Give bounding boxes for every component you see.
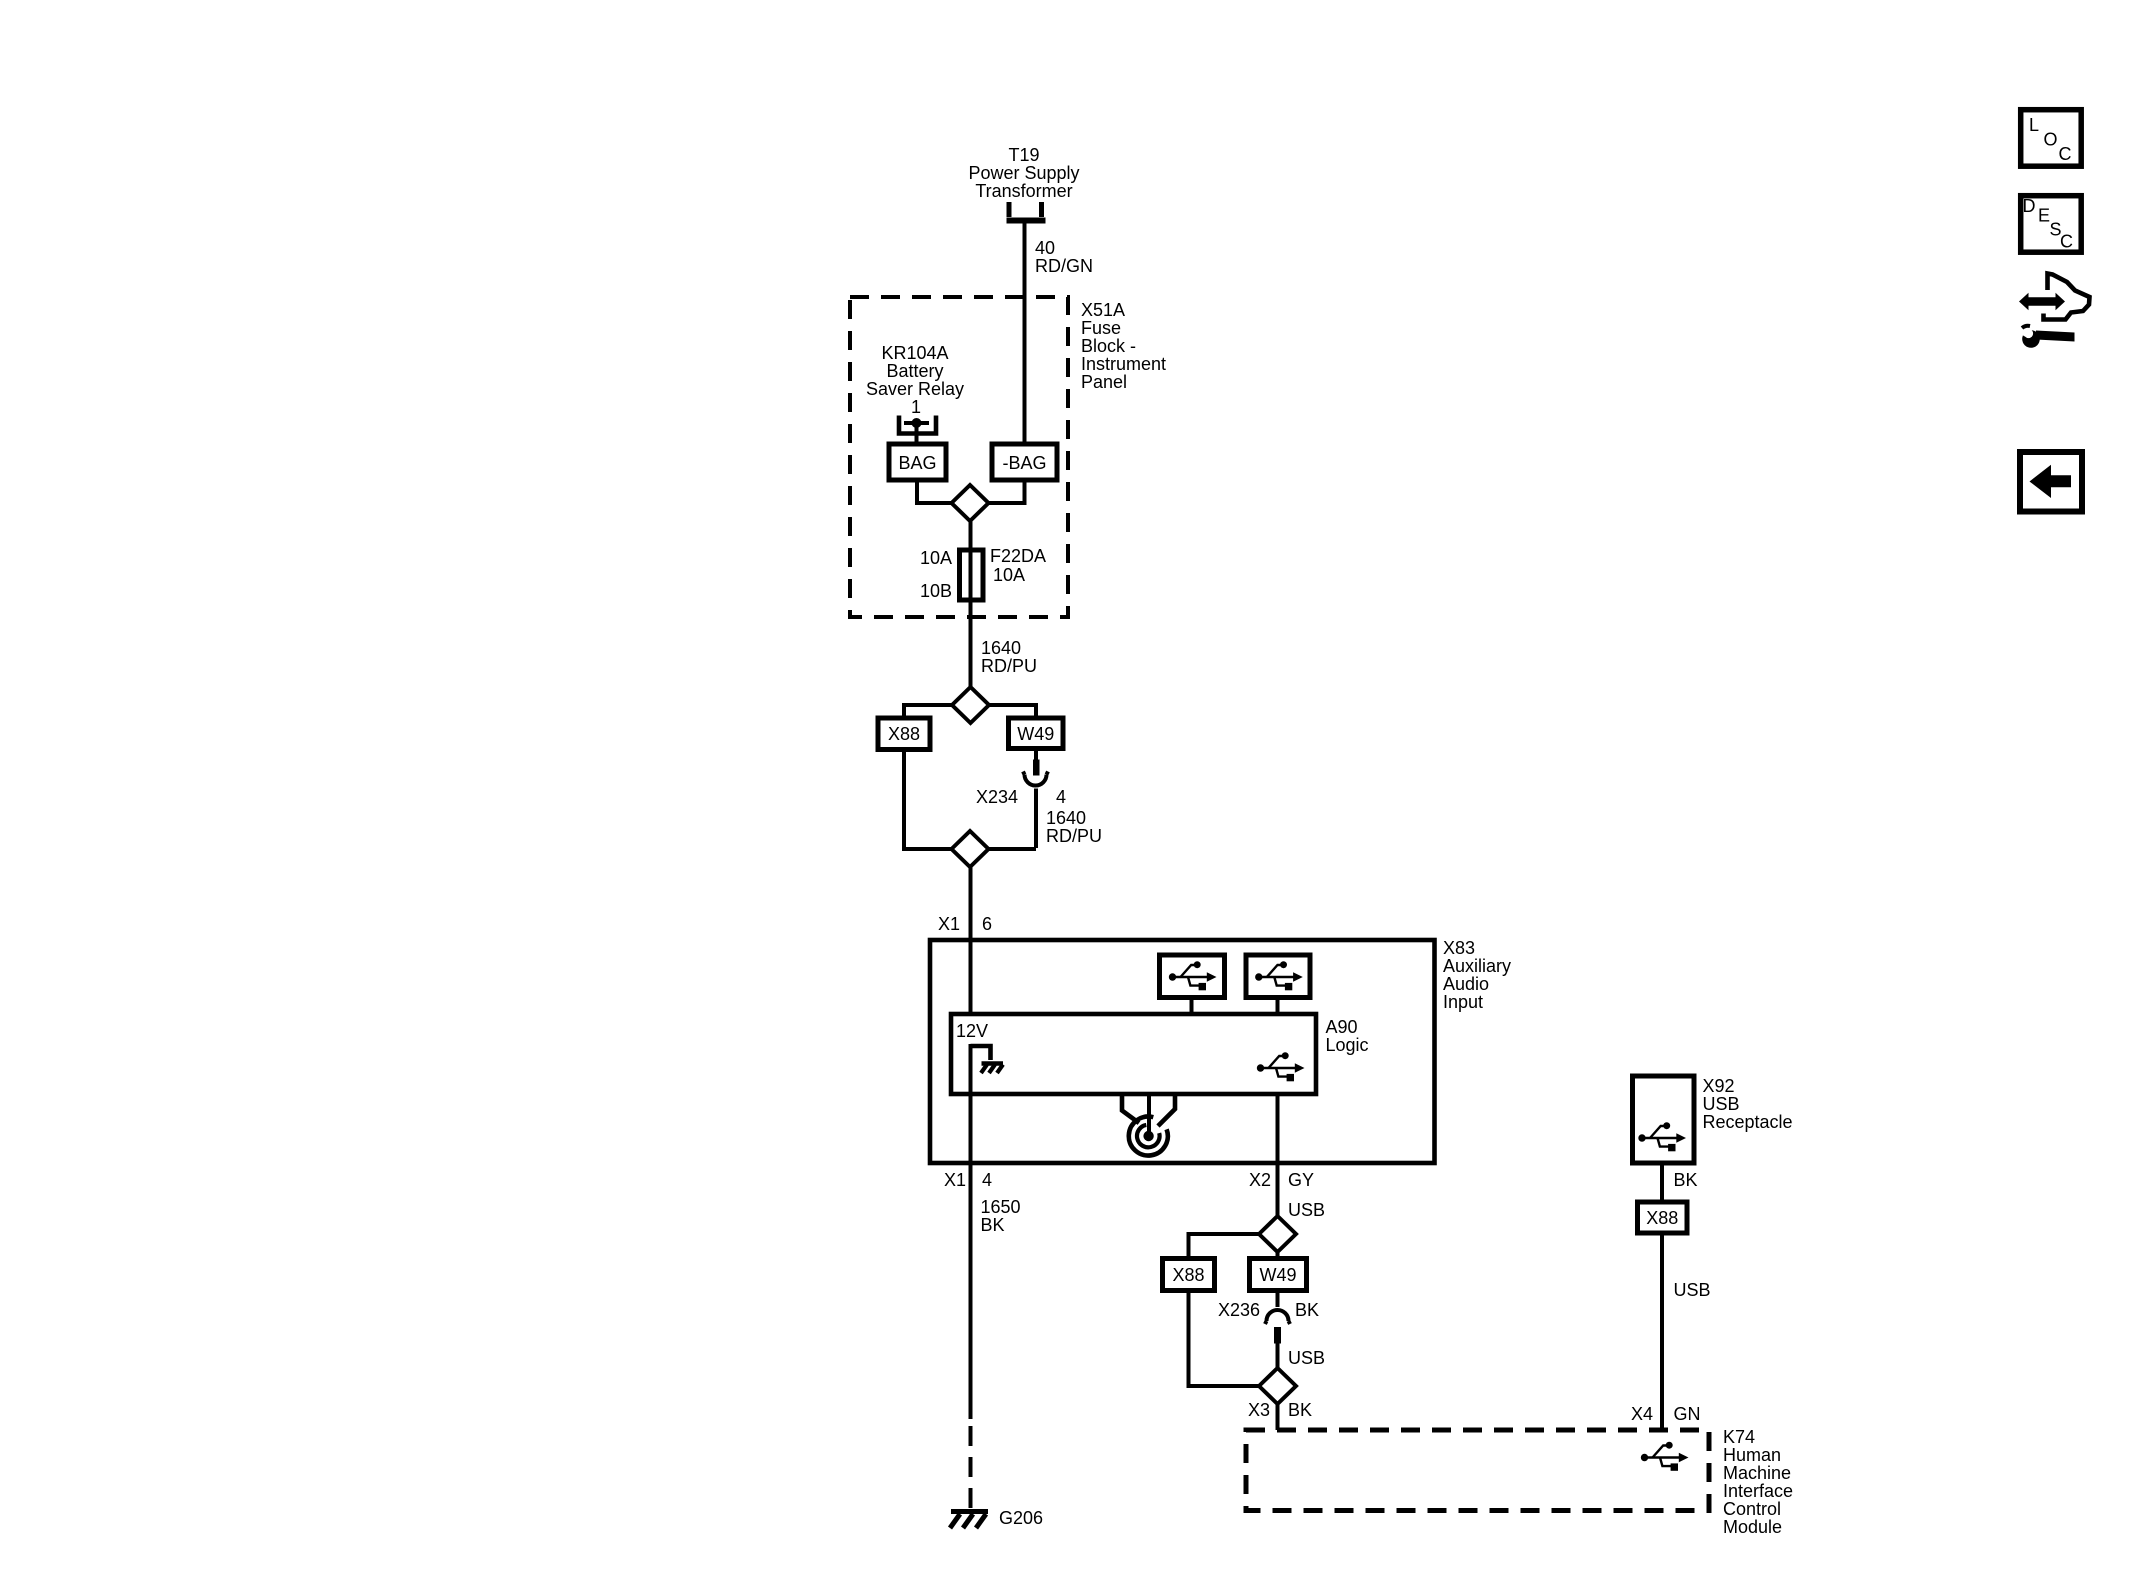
svg-text:X88: X88 (888, 724, 920, 744)
svg-text:Module: Module (1723, 1517, 1782, 1537)
connector label X3 BK (1248, 1400, 1312, 1420)
svg-text:Battery: Battery (886, 361, 943, 381)
dashed ground lead (969, 1426, 973, 1509)
svg-text:RD/PU: RD/PU (1046, 826, 1102, 846)
svg-text:BK: BK (1674, 1170, 1698, 1190)
svg-text:Instrument: Instrument (1081, 354, 1166, 374)
svg-text:USB: USB (1703, 1094, 1740, 1114)
inline connector X234 socket (1023, 772, 1048, 849)
svg-text:F22DA: F22DA (990, 546, 1046, 566)
inline connector X236 pin (1274, 1327, 1281, 1368)
svg-text:X88: X88 (1172, 1265, 1204, 1285)
connector label X1 4 (944, 1170, 992, 1190)
USB symbol port 1 (1169, 961, 1217, 990)
svg-text:1640: 1640 (981, 638, 1021, 658)
wire label 1640 RD/PU second (1046, 808, 1102, 846)
svg-text:USB: USB (1674, 1280, 1711, 1300)
wire X92 to X88 (1660, 1163, 1664, 1203)
wire label 1650 BK (981, 1197, 1021, 1235)
X51A label (1081, 300, 1166, 392)
terminal -BAG box (992, 444, 1057, 480)
svg-text:G206: G206 (999, 1508, 1043, 1528)
transformer T19 label (968, 145, 1079, 201)
wire -BAG to splice (988, 480, 1025, 503)
svg-text:KR104A: KR104A (881, 343, 948, 363)
relay KR104A contact terminal 1 (899, 416, 936, 447)
vehicle/wrench navigation icon (2016, 274, 2090, 348)
svg-text:X51A: X51A (1081, 300, 1125, 320)
USB symbol in K74 (1641, 1442, 1689, 1471)
relay KR104A label (866, 343, 964, 399)
svg-text:Logic: Logic (1326, 1035, 1369, 1055)
back arrow box (2020, 452, 2082, 512)
X92 USB Receptacle box (1633, 1076, 1695, 1163)
svg-text:4: 4 (982, 1170, 992, 1190)
svg-text:X234: X234 (976, 787, 1018, 807)
splice diamond in fuse block (952, 485, 989, 521)
connector X88 box third (1638, 1202, 1688, 1233)
inline connector X236 socket (1265, 1291, 1290, 1325)
svg-text:X2: X2 (1249, 1170, 1271, 1190)
svg-text:X4: X4 (1631, 1404, 1653, 1424)
A90 label (1326, 1017, 1369, 1055)
svg-text:BK: BK (1288, 1400, 1312, 1420)
svg-text:C: C (2060, 232, 2073, 252)
svg-text:Transformer: Transformer (975, 181, 1072, 201)
splice diamond above X88/W49 second (1259, 1216, 1296, 1252)
connector W49 box (1009, 718, 1064, 749)
svg-text:Fuse: Fuse (1081, 318, 1121, 338)
svg-text:T19: T19 (1008, 145, 1039, 165)
A90 Logic box (951, 1014, 1316, 1094)
wire splice to X88 (904, 705, 952, 719)
wire X88 to lower splice (904, 750, 952, 850)
svg-text:Block -: Block - (1081, 336, 1136, 356)
svg-text:40: 40 (1035, 238, 1055, 258)
svg-text:USB: USB (1288, 1200, 1325, 1220)
svg-text:O: O (2044, 130, 2058, 150)
wire 1650 BK to ground (969, 1163, 973, 1419)
svg-text:Panel: Panel (1081, 372, 1127, 392)
wire USB port 1 to A90 (1190, 998, 1194, 1017)
wire A90 to X2 (1276, 1094, 1280, 1163)
svg-text:RD/GN: RD/GN (1035, 256, 1093, 276)
svg-text:L: L (2029, 115, 2039, 135)
fuse block X51A dashed box (850, 297, 1068, 617)
svg-text:10A: 10A (993, 565, 1025, 585)
wire X2 to splice (1276, 1163, 1280, 1217)
DESC navigation box (2021, 196, 2082, 253)
connector X88 box second (1163, 1259, 1215, 1291)
svg-text:C: C (2059, 144, 2072, 164)
svg-text:X236: X236 (1218, 1300, 1260, 1320)
wire splice to K74 X3 (1276, 1404, 1280, 1432)
svg-text:6: 6 (982, 914, 992, 934)
wire USB port 2 to A90 (1276, 998, 1280, 1017)
svg-text:X3: X3 (1248, 1400, 1270, 1420)
connector label X1 6 (938, 914, 992, 934)
svg-text:RD/PU: RD/PU (981, 656, 1037, 676)
transformer T19 symbol (1007, 202, 1046, 221)
svg-text:Machine: Machine (1723, 1463, 1791, 1483)
svg-text:-BAG: -BAG (1002, 453, 1046, 473)
svg-text:BAG: BAG (898, 453, 936, 473)
wire 40 RD/GN from T19 to -BAG (1023, 223, 1027, 446)
lower splice diamond second (1259, 1368, 1296, 1404)
svg-text:Human: Human (1723, 1445, 1781, 1465)
svg-text:Input: Input (1443, 992, 1483, 1012)
svg-text:10A: 10A (920, 548, 952, 568)
inline connector X234 pin (1033, 749, 1040, 776)
svg-text:Interface: Interface (1723, 1481, 1793, 1501)
svg-text:12V: 12V (956, 1021, 988, 1041)
svg-text:K74: K74 (1723, 1427, 1755, 1447)
fuse F22DA (960, 521, 984, 688)
svg-text:Power Supply: Power Supply (968, 163, 1079, 183)
svg-text:W49: W49 (1259, 1265, 1296, 1285)
svg-text:X1: X1 (938, 914, 960, 934)
ground G206 symbol (950, 1512, 988, 1529)
X83 label (1443, 938, 1511, 1012)
svg-text:1: 1 (911, 397, 921, 417)
svg-text:1640: 1640 (1046, 808, 1086, 828)
USB port box 1 (1160, 955, 1225, 998)
wire splice to W49 (989, 705, 1036, 719)
svg-text:W49: W49 (1017, 724, 1054, 744)
USB symbol port 2 (1255, 961, 1303, 990)
svg-text:1650: 1650 (981, 1197, 1021, 1217)
USB symbol in X92 (1638, 1122, 1686, 1151)
svg-text:BK: BK (981, 1215, 1005, 1235)
X92 label (1703, 1076, 1793, 1132)
lower splice diamond (952, 831, 989, 867)
LOC navigation box (2021, 110, 2082, 167)
svg-text:GN: GN (1674, 1404, 1701, 1424)
fuse name label F22DA 10A (990, 546, 1046, 585)
svg-text:Auxiliary: Auxiliary (1443, 956, 1511, 976)
svg-text:Receptacle: Receptacle (1703, 1112, 1793, 1132)
svg-text:D: D (2023, 196, 2036, 216)
wire X1 6 into A90 (969, 940, 973, 1016)
svg-text:Saver Relay: Saver Relay (866, 379, 964, 399)
svg-text:GY: GY (1288, 1170, 1314, 1190)
svg-text:A90: A90 (1326, 1017, 1358, 1037)
wire X234 to lower splice (988, 847, 1036, 851)
connector label X4 GN (1631, 1404, 1701, 1424)
K74 label (1723, 1427, 1793, 1537)
wire USB to K74 X4 (1660, 1233, 1664, 1432)
splice diamond above X88/W49 (952, 687, 989, 723)
svg-text:USB: USB (1288, 1348, 1325, 1368)
svg-text:X88: X88 (1646, 1208, 1678, 1228)
svg-text:X92: X92 (1703, 1076, 1735, 1096)
svg-text:E: E (2038, 206, 2050, 226)
svg-text:Control: Control (1723, 1499, 1781, 1519)
connector W49 box second (1250, 1259, 1307, 1291)
svg-text:X83: X83 (1443, 938, 1475, 958)
svg-text:4: 4 (1056, 787, 1066, 807)
svg-text:X1: X1 (944, 1170, 966, 1190)
wire splice to X88 second (1189, 1234, 1260, 1259)
K74 Human Machine Interface Control Module dashed box (1246, 1430, 1709, 1511)
wire X88 second to lower splice (1189, 1291, 1260, 1387)
wire splice to X83 pin 6 (969, 867, 973, 940)
X83 Auxiliary Audio Input box (930, 940, 1435, 1163)
connector label X2 GY (1249, 1170, 1314, 1190)
wire BAG to splice (917, 480, 953, 503)
wire splice to W49 second (1276, 1252, 1280, 1259)
USB symbol inside A90 (1257, 1052, 1305, 1081)
svg-text:Audio: Audio (1443, 974, 1489, 994)
USB port box 2 (1246, 955, 1310, 998)
internal ground stub (971, 1044, 1004, 1163)
svg-text:BK: BK (1295, 1300, 1319, 1320)
wire label 40 RD/GN (1035, 238, 1093, 276)
connector X88 box (878, 718, 930, 750)
svg-text:10B: 10B (920, 581, 952, 601)
wire label 1640 RD/PU (981, 638, 1037, 676)
speaker coil symbol below A90 (1122, 1094, 1175, 1156)
terminal BAG box (889, 444, 946, 480)
